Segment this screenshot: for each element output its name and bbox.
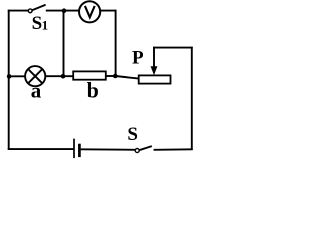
wire top segment to switch S1 [8, 10, 28, 12]
wire vertical branch voltmeter-right down to node B [115, 10, 117, 77]
rheostat P body [139, 75, 171, 83]
wire top segment from S1 to voltmeter [46, 10, 79, 12]
label S1 [32, 13, 48, 34]
wire top segment voltmeter to right corner [100, 10, 116, 12]
label S [127, 124, 138, 145]
node A junction dot (top wire / left vertical branch) [62, 8, 67, 13]
battery cell [74, 139, 79, 159]
label P [132, 48, 144, 69]
wire middle segment resistor b to node B [106, 75, 117, 77]
svg-text:S: S [127, 124, 138, 145]
wire middle segment node B to rheostat P [116, 76, 140, 79]
wire right vertical side [191, 47, 193, 150]
svg-text:P: P [132, 48, 144, 69]
wire bottom segment battery to switch S [81, 148, 136, 151]
svg-text:a: a [31, 79, 42, 103]
wire bottom segment to battery [8, 148, 74, 150]
node on left wire junction dot [7, 74, 12, 79]
switch S1 (open) [28, 5, 45, 13]
switch S (open) [135, 146, 152, 152]
lamp a (circle with X) [25, 66, 45, 86]
wire bottom segment switch S to right corner [154, 148, 193, 151]
wire middle segment lamp to resistor b [45, 75, 73, 77]
wire middle segment to lamp [9, 75, 26, 77]
node B junction dot [113, 74, 118, 79]
wire slider top horizontal [153, 47, 193, 49]
svg-text:b: b [87, 78, 99, 103]
svg-text:1: 1 [42, 17, 49, 32]
wire vertical branch node A down to node C [63, 10, 65, 77]
rheostat slider arrow [151, 47, 158, 76]
label b [87, 78, 99, 103]
wire left vertical side [8, 10, 10, 150]
node C junction dot [61, 74, 66, 79]
voltmeter U1 [79, 1, 100, 22]
label a [31, 79, 42, 103]
svg-text:S: S [32, 13, 43, 34]
resistor b [73, 71, 106, 79]
